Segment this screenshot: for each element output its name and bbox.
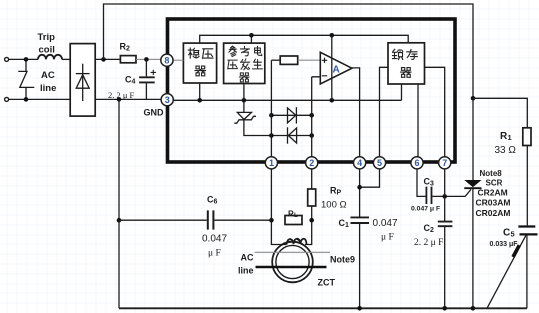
svg-text:3: 3 xyxy=(430,181,434,188)
node d1 left xyxy=(269,113,274,118)
diagonal arrow xyxy=(487,235,526,308)
svg-text:2. 2 μ F: 2. 2 μ F xyxy=(108,90,135,100)
capacitor C5 xyxy=(518,227,537,235)
node pin1 C6 xyxy=(269,218,274,223)
ZCT toroid xyxy=(272,242,313,283)
pin1 riser xyxy=(270,60,272,156)
node gate pin7 xyxy=(442,194,447,199)
op-amp A xyxy=(320,52,352,84)
wire xyxy=(62,58,70,60)
svg-text:2: 2 xyxy=(309,158,314,168)
svg-text:4: 4 xyxy=(357,158,362,168)
svg-text:Trip: Trip xyxy=(38,32,56,43)
wire top AC xyxy=(9,58,38,60)
C3 to SCR gate wire xyxy=(432,189,471,196)
node top right xyxy=(471,96,476,101)
pin 8 xyxy=(161,54,173,66)
node opamp gnd xyxy=(330,98,335,103)
C6 wire xyxy=(119,219,271,221)
capacitor C3 xyxy=(426,187,431,204)
svg-text:AC: AC xyxy=(41,70,55,81)
resistor R2 xyxy=(120,56,136,63)
capacitor C2 xyxy=(438,222,453,227)
svg-text:33 Ω: 33 Ω xyxy=(495,145,517,156)
latch box xyxy=(388,43,425,84)
node regulator gnd xyxy=(197,98,202,103)
wire bridge to R2 xyxy=(95,58,120,60)
diode upper xyxy=(271,107,311,123)
pin 7 xyxy=(439,157,451,169)
pin 3 xyxy=(161,94,173,106)
capacitor C6 xyxy=(208,210,214,229)
svg-text:0.047: 0.047 xyxy=(202,234,227,245)
svg-text:Note8: Note8 xyxy=(480,169,503,178)
svg-text:CR03AM: CR03AM xyxy=(476,198,511,208)
ZCT winding xyxy=(287,239,307,245)
top rail wire xyxy=(104,4,474,98)
zener diode xyxy=(234,84,271,136)
node d2 right xyxy=(309,133,314,138)
svg-text:3: 3 xyxy=(165,95,170,105)
svg-text:Note9: Note9 xyxy=(330,255,355,265)
svg-text:5: 5 xyxy=(511,229,515,238)
svg-text:C: C xyxy=(503,227,510,238)
node pin2 RL xyxy=(309,218,314,223)
AC conductor upper xyxy=(255,251,331,253)
node SCR bottom xyxy=(471,306,476,311)
node varistor bottom xyxy=(24,97,29,102)
svg-text:μ F: μ F xyxy=(208,249,221,259)
node left drop xyxy=(117,97,122,102)
supply rail xyxy=(200,35,409,43)
svg-text:CR2AM: CR2AM xyxy=(478,187,508,197)
svg-text:6: 6 xyxy=(415,158,420,168)
svg-text:L: L xyxy=(294,213,298,219)
latch bottom to pin6 xyxy=(417,84,419,157)
wire regulator bottom stub xyxy=(199,83,201,100)
pin 1 xyxy=(265,157,277,169)
node pin7 bottom xyxy=(442,306,447,311)
pin2 drop with RP xyxy=(305,169,312,245)
GND rail xyxy=(168,99,402,101)
bridge rectifier xyxy=(70,44,95,117)
bottom rail xyxy=(119,307,527,309)
node supply ref xyxy=(249,33,254,38)
wire to R1 branch xyxy=(473,98,527,128)
inductor trip coil xyxy=(38,55,62,60)
svg-text:coil: coil xyxy=(39,45,55,56)
node C6 wire xyxy=(117,218,122,223)
svg-text:2. 2 μ F: 2. 2 μ F xyxy=(414,238,443,248)
latch bottom gnd stub xyxy=(401,84,403,100)
node pin45 xyxy=(357,185,362,190)
svg-text:5: 5 xyxy=(377,158,382,168)
resistor R1 xyxy=(523,128,531,146)
svg-text:ZCT: ZCT xyxy=(318,278,336,288)
pin 6 xyxy=(411,157,423,169)
svg-text:1: 1 xyxy=(269,158,274,168)
opamp vertical feed xyxy=(331,35,333,100)
svg-text:4: 4 xyxy=(132,79,136,86)
svg-text:100 Ω: 100 Ω xyxy=(321,200,347,211)
wire C5 bottom xyxy=(526,234,528,308)
svg-text:μ F: μ F xyxy=(381,232,394,242)
node varistor top xyxy=(24,57,29,62)
node d1 right xyxy=(309,113,314,118)
SCR thyristor xyxy=(464,180,481,308)
wire ref box top stub xyxy=(250,35,252,43)
node pin4 bottom xyxy=(357,306,362,311)
node d2 left xyxy=(269,133,274,138)
capacitor C4 xyxy=(139,59,156,99)
pin 4 xyxy=(354,157,366,169)
latch left to pin5 xyxy=(380,67,389,156)
pin7 drop with C2 xyxy=(444,169,446,308)
pin 5 xyxy=(373,157,385,169)
pin1 drop xyxy=(271,169,286,245)
svg-text:0.047: 0.047 xyxy=(373,218,398,229)
latch right to pin7 xyxy=(425,67,445,156)
diode lower xyxy=(271,127,311,143)
node supply opamp xyxy=(330,33,335,38)
IC border xyxy=(168,19,456,162)
node C4 top xyxy=(144,57,149,62)
SCR anode wire xyxy=(472,98,474,180)
capacitor C1 xyxy=(351,217,370,223)
wire bridge to pin3 GND xyxy=(95,98,161,100)
reference voltage generator box xyxy=(224,43,265,83)
svg-text:2: 2 xyxy=(126,46,130,53)
svg-text:CR02AM: CR02AM xyxy=(476,208,511,218)
pin4 drop with C1 xyxy=(359,169,361,308)
pin5 jumper to pin4 line xyxy=(360,169,380,187)
svg-text:7: 7 xyxy=(442,158,447,168)
pin6 drop xyxy=(417,169,426,196)
svg-text:1: 1 xyxy=(345,222,349,229)
pin2 riser xyxy=(312,77,321,157)
wire left drop xyxy=(118,99,120,308)
AC conductor lower xyxy=(256,266,327,269)
wire pin8 to regulator xyxy=(173,59,183,61)
wire R2 to pin8 xyxy=(136,58,161,60)
node zener gnd xyxy=(242,98,247,103)
wire bottom AC xyxy=(9,98,70,100)
svg-text:SCR: SCR xyxy=(486,179,503,188)
svg-text:2: 2 xyxy=(430,227,434,234)
svg-text:1: 1 xyxy=(508,133,512,142)
svg-text:0.047 μ F: 0.047 μ F xyxy=(411,205,440,212)
svg-text:0.033 μF: 0.033 μF xyxy=(490,241,519,248)
svg-text:GND: GND xyxy=(144,108,165,118)
regulator box xyxy=(183,43,216,83)
opamp output xyxy=(352,68,360,157)
internal resistor xyxy=(280,56,298,64)
terminal top xyxy=(5,57,9,61)
svg-text:8: 8 xyxy=(164,56,169,66)
svg-text:A: A xyxy=(333,65,340,76)
varistor MOV xyxy=(18,59,34,99)
resistor RP xyxy=(308,189,316,206)
node top rail branch xyxy=(101,57,106,62)
svg-text:line: line xyxy=(40,83,56,94)
wire R1 to C5 xyxy=(526,146,528,226)
svg-text:6: 6 xyxy=(214,198,218,205)
pin 2 xyxy=(306,157,318,169)
svg-text:AC: AC xyxy=(241,253,254,263)
svg-text:P: P xyxy=(337,190,342,197)
terminal bottom xyxy=(5,97,9,101)
svg-text:line: line xyxy=(238,266,254,276)
resistor RL xyxy=(285,216,302,225)
